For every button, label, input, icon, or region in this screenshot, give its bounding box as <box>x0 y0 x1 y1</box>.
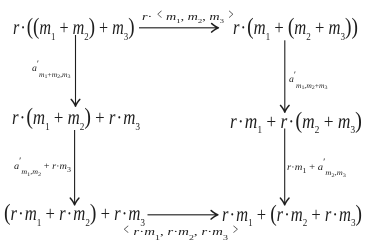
node MR: r·m1+r·(m2+m3) <box>230 110 362 134</box>
label top arrow: r·<m1,m2,m3> <box>142 13 235 24</box>
label left arrow 2: a'_{m1,m2}+r·m3 <box>14 162 71 172</box>
right arrow 1 head <box>281 105 290 112</box>
bottom arrow head <box>211 211 218 220</box>
right arrow 2 head <box>280 198 289 205</box>
label right arrow 2: r·m1+a'_{m2,m3} <box>287 163 346 173</box>
node TL: r·((m1+m2)+m3) <box>13 16 135 40</box>
bottom arrow shaft <box>148 214 218 216</box>
node ML: r·(m1+m2)+r·m3 <box>12 106 140 130</box>
label bottom arrow: <r·m1, r·m2, r·m3> <box>122 228 239 239</box>
label left arrow 1: a'_{m1+m2,m3} <box>32 64 70 74</box>
node BR: r·m1+(r·m2+r·m3) <box>222 203 362 227</box>
node TR: r·(m1+(m2+m3)) <box>233 16 358 40</box>
left arrow 1 shaft <box>75 35 77 105</box>
left arrow 1 head <box>71 99 80 106</box>
label right arrow 1: a'_{m1,m2+m3} <box>289 75 327 85</box>
right arrow 2 shaft <box>284 129 286 205</box>
node BL: (r·m1+r·m2)+r·m3 <box>4 202 145 226</box>
right arrow 1 shaft <box>284 40 286 111</box>
top arrow head <box>212 24 219 33</box>
left arrow 2 shaft <box>74 130 76 204</box>
top arrow shaft <box>139 27 218 29</box>
left arrow 2 head <box>70 198 79 205</box>
